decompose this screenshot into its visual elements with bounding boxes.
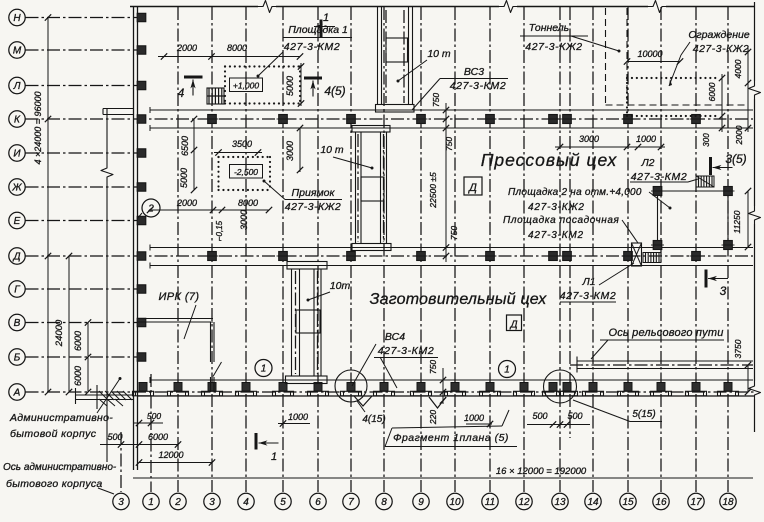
dim 3750: [733, 339, 751, 395]
axis circle 10 bottom x455: [447, 493, 463, 509]
platform L2: [651, 187, 735, 250]
svg-text:1: 1: [504, 365, 510, 376]
svg-text:8000: 8000: [227, 43, 247, 53]
svg-text:2000: 2000: [734, 125, 744, 145]
svg-text:10: 10: [449, 497, 461, 508]
gate notch 2: [429, 397, 446, 408]
axis circle 8 bottom x384: [376, 493, 392, 509]
crane rail row A: [150, 379, 753, 381]
gate notch 1: [354, 396, 372, 406]
svg-text:Административно-: Административно-: [9, 412, 113, 424]
svg-text:Площадка посадочная: Площадка посадочная: [503, 215, 620, 226]
section mark 3: [705, 270, 708, 288]
svg-text:4(15): 4(15): [362, 414, 385, 425]
svg-text:Л2: Л2: [640, 157, 654, 169]
label axis of admin building: [3, 462, 117, 494]
marker circle 1 right: [499, 361, 516, 378]
footing x318: [314, 383, 322, 392]
label 10t crane 2: [320, 144, 373, 170]
wall column row Г: [137, 285, 146, 293]
svg-text:500: 500: [107, 432, 122, 442]
axis circle 13 bottom x560: [552, 493, 568, 509]
svg-text:11250: 11250: [732, 210, 742, 233]
wall column row Л: [137, 81, 146, 89]
footing x661: [657, 383, 665, 392]
column K-567: [563, 115, 572, 124]
svg-text:Ось рельсового пути: Ось рельсового пути: [608, 327, 723, 339]
axis circle 18 bottom x728: [720, 493, 736, 509]
svg-text:7: 7: [348, 497, 354, 508]
crane 10t bottom (rows D-A): [286, 262, 328, 384]
label BC3: [412, 66, 508, 110]
admin building bottom corner: [75, 394, 133, 396]
svg-text:3: 3: [118, 497, 124, 508]
rail track lines: [570, 357, 753, 373]
dim 1000 near axis 5: [278, 412, 310, 427]
footing x696: [692, 383, 700, 392]
column K-696: [692, 115, 701, 124]
axis line К: [26, 118, 754, 120]
svg-text:2: 2: [174, 497, 181, 508]
axis line 3: [211, 7, 213, 492]
svg-text:Е: Е: [14, 216, 21, 227]
elevation box +1,000: [230, 78, 263, 92]
column K-490: [486, 115, 495, 124]
svg-text:Д: Д: [467, 182, 477, 194]
dim chain 4x24000=96000: [33, 14, 51, 395]
axis line 5: [282, 7, 284, 492]
top wall: [130, 6, 258, 8]
axis circle Л: [9, 77, 25, 93]
axis line 9: [420, 7, 422, 492]
svg-text:2000: 2000: [176, 43, 197, 53]
column D-421: [417, 252, 426, 261]
marker circle 1 left: [255, 360, 272, 377]
left wall: [133, 7, 135, 471]
svg-text:ВС3: ВС3: [464, 66, 484, 78]
dim 24000 left: [54, 253, 72, 395]
crane rail row D lower: [150, 265, 753, 267]
svg-text:Ось административно-: Ось административно-: [3, 462, 117, 473]
svg-text:750: 750: [444, 137, 454, 151]
axis line 8: [383, 7, 385, 492]
detail circle 4(15): [335, 370, 367, 402]
svg-text:3000: 3000: [285, 141, 295, 161]
stair flight near L2: [696, 176, 714, 187]
footing x628: [624, 383, 632, 392]
label BC4: [352, 331, 438, 388]
right border: [754, 2, 756, 81]
dims 500 500 at axis 13: [527, 411, 590, 428]
dim 1000 near axis 11: [464, 413, 493, 427]
axis circle И: [9, 145, 25, 161]
svg-text:бытового корпуса: бытового корпуса: [6, 478, 103, 490]
axis circle 9 bottom x421: [413, 493, 429, 509]
node D box 2: [507, 315, 522, 331]
svg-text:8000: 8000: [238, 198, 258, 208]
axis line 1: [150, 374, 152, 492]
axis circle Б: [9, 349, 25, 365]
axis line А: [26, 391, 756, 393]
svg-text:2: 2: [147, 204, 154, 215]
svg-text:М: М: [13, 46, 22, 57]
crane rail row K lower: [150, 127, 753, 129]
svg-text:И: И: [13, 149, 21, 160]
svg-text:Площадка 1: Площадка 1: [288, 24, 348, 36]
label 10t crane 3: [307, 280, 351, 302]
label 5(15): [573, 400, 662, 422]
svg-text:427-3-КМ2: 427-3-КМ2: [528, 230, 584, 241]
svg-text:8: 8: [381, 497, 387, 508]
svg-text:12: 12: [518, 497, 530, 508]
dim 11250: [732, 188, 751, 250]
svg-text:Фрагмент 1плана (5): Фрагмент 1плана (5): [393, 432, 509, 444]
label Tonnel: [520, 22, 621, 53]
dim 750 220 at row A: [428, 360, 446, 425]
svg-text:5(15): 5(15): [632, 409, 655, 420]
footing x593: [589, 383, 597, 392]
admin building wall: [106, 109, 108, 163]
svg-text:13: 13: [554, 497, 566, 508]
marker circle 2 on wall: [142, 199, 160, 217]
column D-567: [563, 252, 572, 261]
label L2: [630, 157, 698, 183]
axis line 3 admin: [120, 432, 122, 492]
axis line 16: [660, 7, 662, 492]
wall column row Б: [137, 353, 146, 361]
crane rail row D upper: [150, 247, 753, 249]
axis circle А: [9, 384, 25, 400]
axis circle Н: [9, 9, 25, 25]
svg-text:14: 14: [587, 497, 599, 508]
svg-text:220: 220: [428, 410, 438, 425]
tunnel dashed walls: [606, 8, 749, 105]
svg-text:16 × 12000 = 192000: 16 × 12000 = 192000: [496, 466, 587, 477]
axis line Б: [26, 356, 138, 358]
axis line В: [26, 322, 138, 324]
axis circle 6 bottom x318: [310, 493, 326, 509]
svg-text:⌐0,15: ⌐0,15: [215, 220, 224, 241]
footing x384: [380, 383, 388, 392]
axis line М: [26, 49, 138, 51]
wall column row К: [137, 115, 146, 123]
dim 10000 tunnel: [624, 49, 683, 65]
svg-text:427-3-КЖ2: 427-3-КЖ2: [693, 43, 750, 55]
axis circle 15 bottom x628: [620, 493, 636, 509]
detail circle 5(15): [544, 370, 577, 403]
canopy row K: [103, 108, 133, 110]
footing x212: [208, 383, 216, 392]
svg-text:24000: 24000: [54, 319, 65, 347]
label axis of rail track: [591, 327, 724, 359]
axis line 12: [523, 7, 525, 492]
svg-text:1000: 1000: [288, 412, 308, 422]
admin wall hatch: [99, 391, 108, 400]
svg-text:10000: 10000: [637, 49, 662, 59]
axis line 15: [627, 7, 629, 492]
svg-text:427-3-КМ2: 427-3-КМ2: [560, 290, 617, 302]
axis line 10: [454, 7, 456, 492]
column D-696: [692, 252, 701, 261]
label Ploshchadka posadochnaya: [503, 215, 638, 243]
svg-text:Площадка 2 на отм.+4,000: Площадка 2 на отм.+4,000: [508, 187, 642, 198]
svg-text:427-3-КЖ2: 427-3-КЖ2: [528, 202, 585, 213]
footing x351: [347, 383, 355, 392]
axis line 7: [350, 7, 352, 492]
column K-553: [549, 115, 558, 124]
axis line 4: [245, 7, 247, 492]
svg-text:4 ×24000 = 96000: 4 ×24000 = 96000: [33, 91, 43, 164]
column D-351: [347, 252, 356, 261]
svg-text:6000: 6000: [707, 82, 717, 101]
svg-text:Тоннель: Тоннель: [529, 22, 569, 34]
dim 3000 1000 row K right: [555, 134, 665, 150]
svg-text:5000: 5000: [285, 76, 295, 96]
svg-text:750: 750: [428, 360, 438, 374]
svg-text:427-3-КМ2: 427-3-КМ2: [378, 345, 435, 357]
axis circle 1 bottom x151: [143, 493, 159, 509]
label Ploshchadka 2: [508, 187, 672, 213]
svg-text:бытовой корпус: бытовой корпус: [10, 428, 97, 440]
column D-553: [549, 252, 558, 261]
section mark 3(5): [709, 157, 712, 175]
column D-283: [279, 252, 288, 261]
overall dim line 192000: [133, 477, 753, 479]
axis circle В: [9, 314, 25, 330]
room IRK walls: [138, 319, 215, 393]
svg-text:Д: Д: [12, 252, 20, 263]
axis circle 11 bottom x490: [482, 493, 498, 509]
axis line Н: [26, 17, 138, 19]
axis circle М: [9, 42, 25, 58]
dim 500 at axis 1: [134, 411, 163, 426]
axis line 17: [695, 7, 697, 492]
footing x283: [279, 383, 287, 392]
section mark 1 bottom: [255, 433, 258, 450]
svg-text:16: 16: [655, 497, 667, 508]
svg-text:10 т: 10 т: [320, 144, 344, 156]
pit dotted outline: [219, 157, 271, 190]
svg-text:6500: 6500: [180, 136, 190, 156]
svg-text:22500 ±5: 22500 ±5: [428, 172, 438, 209]
svg-text:А: А: [13, 388, 21, 399]
axis line 2: [177, 7, 179, 492]
footing x143: [139, 383, 147, 392]
node D box 1: [464, 177, 482, 195]
wall column row Ж: [137, 183, 146, 191]
svg-text:+1,000: +1,000: [233, 80, 260, 90]
svg-text:10 т: 10 т: [427, 48, 451, 60]
svg-text:3750: 3750: [733, 339, 743, 358]
axis circle 14 bottom x593: [585, 493, 601, 509]
wall column row В: [137, 318, 146, 326]
svg-text:3: 3: [209, 497, 215, 508]
dim 6500 5000: [179, 116, 197, 193]
svg-text:427-3-КМ2: 427-3-КМ2: [631, 171, 688, 183]
svg-text:1: 1: [271, 451, 277, 463]
column K-628: [624, 115, 633, 124]
svg-text:6: 6: [315, 497, 321, 508]
wall column row Н: [137, 13, 146, 21]
label Ploshchadka 1: [257, 24, 353, 78]
column D-212: [208, 252, 217, 261]
footing x490: [486, 383, 494, 392]
axis line Д: [26, 255, 754, 257]
section mark 4: [184, 76, 203, 79]
svg-text:Л1: Л1: [581, 276, 595, 288]
axis line Ж: [26, 186, 138, 188]
axis line 6: [317, 7, 319, 492]
svg-text:2000: 2000: [176, 198, 197, 208]
axis line И: [26, 152, 138, 154]
svg-text:1: 1: [323, 12, 329, 24]
svg-text:427-3-КМ2: 427-3-КМ2: [284, 41, 341, 53]
wall column row И: [137, 149, 146, 157]
axis circle К: [9, 111, 25, 127]
svg-text:4: 4: [178, 86, 185, 100]
svg-text:Д: Д: [509, 320, 517, 331]
svg-text:Заготовительный цех: Заготовительный цех: [370, 291, 548, 308]
wall column row Е: [137, 216, 146, 224]
column K-421: [417, 115, 426, 124]
svg-text:1000: 1000: [636, 134, 656, 144]
svg-text:ИРК (7): ИРК (7): [159, 291, 200, 303]
svg-text:750: 750: [431, 93, 441, 107]
fence dotted lines: [627, 78, 716, 116]
bottom wall row A: [137, 395, 755, 397]
axis line Г: [26, 288, 138, 290]
ladder L1 crossed box: [632, 243, 642, 266]
dim 750 750 22500 at row K: [428, 93, 459, 262]
label Ograzhdenie: [669, 29, 750, 86]
svg-text:1: 1: [261, 364, 267, 375]
svg-text:427-3-КМ2: 427-3-КМ2: [450, 80, 507, 92]
column K-212: [208, 115, 217, 124]
svg-text:3500: 3500: [232, 139, 252, 149]
axis line Е: [26, 220, 138, 222]
svg-text:Прессовый цех: Прессовый цех: [481, 150, 618, 170]
axis line 18: [727, 7, 729, 492]
footing x246: [242, 383, 250, 392]
svg-text:1000: 1000: [464, 413, 484, 423]
svg-text:427-3-КЖ2: 427-3-КЖ2: [525, 41, 582, 53]
svg-text:9: 9: [418, 497, 424, 508]
svg-text:500: 500: [147, 411, 161, 421]
axis circle 3 bottom x121: [113, 493, 129, 509]
svg-text:4000: 4000: [733, 59, 743, 78]
svg-text:3000: 3000: [579, 134, 599, 144]
axis circle 12 bottom x524: [516, 493, 532, 509]
wall column row Д: [137, 252, 146, 260]
svg-text:750: 750: [449, 226, 459, 240]
axis circle 5 bottom x283: [275, 493, 291, 509]
svg-text:5: 5: [280, 497, 286, 508]
svg-text:3: 3: [720, 284, 727, 298]
svg-text:ВС4: ВС4: [385, 331, 405, 343]
svg-text:500: 500: [532, 411, 547, 421]
elevation box -2,500: [230, 165, 263, 179]
label L1: [560, 263, 634, 302]
label Fragment 1 plana: [385, 410, 517, 447]
svg-text:1: 1: [148, 497, 154, 508]
axis circle 7 bottom x351: [343, 493, 359, 509]
axis line 11: [489, 7, 491, 492]
svg-text:6000: 6000: [73, 366, 83, 386]
svg-text:3000: 3000: [239, 210, 249, 230]
svg-text:Приямок: Приямок: [292, 187, 336, 199]
axis circle Ж: [9, 179, 25, 195]
footing x178: [174, 383, 182, 392]
section mark 4(5): [304, 77, 322, 80]
axis line 13: [559, 7, 561, 492]
svg-text:4: 4: [243, 497, 249, 508]
svg-text:В: В: [14, 318, 21, 329]
axis circle 3 bottom x212: [204, 493, 220, 509]
footing x553: [549, 383, 557, 392]
label admin building: [9, 377, 122, 440]
dim 6000 300 right: [702, 74, 725, 147]
svg-text:-2,500: -2,500: [234, 167, 258, 177]
wall column row М: [137, 46, 146, 54]
footing x728: [724, 383, 732, 392]
svg-text:18: 18: [722, 497, 734, 508]
axis line 13 second (expansion joint): [569, 7, 571, 438]
axis circle 17 bottom x696: [688, 493, 704, 509]
svg-text:15: 15: [622, 497, 634, 508]
svg-text:Ж: Ж: [11, 183, 22, 194]
svg-text:300: 300: [702, 133, 711, 147]
svg-text:6000: 6000: [73, 331, 83, 351]
dim 12000: [136, 450, 215, 466]
crane BC3 top (axes 7-9): [376, 7, 415, 113]
dim 2000 8000 row E: [147, 198, 272, 213]
dim 500 6000 bottom left: [100, 432, 181, 448]
crane 10t middle (rows K-D): [352, 126, 391, 251]
svg-text:10т: 10т: [330, 280, 351, 292]
dim 2000 8000 top: [158, 43, 303, 60]
footing x421: [417, 383, 425, 392]
platform 1 dotted outline: [225, 67, 300, 104]
axis circle 2 bottom x178: [170, 493, 186, 509]
column D-490: [486, 252, 495, 261]
footing x524: [520, 383, 528, 392]
label Priyamok: [263, 180, 343, 214]
axis circle 4 bottom x246: [238, 493, 254, 509]
svg-text:Ограждение: Ограждение: [688, 29, 750, 41]
axis circle 16 bottom x661: [653, 493, 669, 509]
column K-283: [279, 115, 288, 124]
axis circle Д: [9, 248, 25, 264]
dim 3500 pit: [214, 139, 262, 156]
section mark 1 top: [320, 20, 323, 38]
dim 3000 vert x300: [285, 125, 303, 173]
svg-text:5000: 5000: [179, 168, 189, 188]
svg-text:Л: Л: [13, 81, 21, 92]
svg-text:Б: Б: [14, 353, 21, 364]
svg-text:12000: 12000: [158, 450, 183, 460]
column K-351: [347, 115, 356, 124]
stair hatch at platform 1: [207, 88, 224, 104]
svg-text:427-3-КЖ2: 427-3-КЖ2: [285, 201, 342, 213]
svg-text:17: 17: [690, 497, 702, 508]
axis circle Г: [9, 281, 25, 297]
svg-text:11: 11: [485, 497, 495, 508]
axis circle Е: [9, 212, 25, 228]
dim 4000 2000 right: [733, 48, 751, 145]
door leaf: [213, 362, 222, 377]
crane rail row K upper: [150, 109, 753, 111]
label 10t crane 1: [397, 48, 451, 83]
